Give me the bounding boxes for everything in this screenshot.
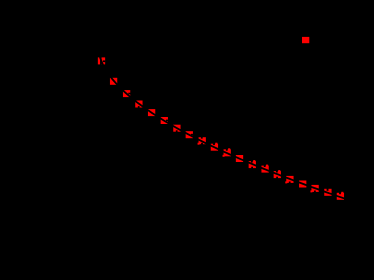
data marker 14 (red square with error-bar notches) (261, 165, 268, 173)
data marker 10 (red square with error-bar notches) (211, 143, 218, 151)
data marker 4 (red square with error-bar notches) (135, 101, 142, 108)
data marker 12 (red square with error-bar notches) (236, 155, 243, 162)
data marker 8 (red square with error-bar notches) (186, 131, 194, 138)
data marker 5 (red square with error-bar notches) (148, 109, 155, 116)
data marker 11 (red square with error-bar notches) (223, 148, 231, 157)
data marker 16 (red square with error-bar notches) (285, 176, 293, 184)
data marker 15 (red square with error-bar notches) (274, 170, 281, 178)
data marker 18 (red square with error-bar notches) (310, 185, 318, 193)
data marker 1 (red square with error-bar notches) (98, 56, 105, 65)
data marker 3 (red square with error-bar notches) (123, 90, 131, 97)
data marker 19 (red square with error-bar notches) (324, 189, 331, 196)
data marker 17 (red square with error-bar notches) (299, 181, 306, 188)
fit line (black power-law curve, drawn over markers) (99, 53, 353, 201)
data marker 7 (red square with error-bar notches) (173, 125, 180, 132)
data marker 2 (red square with error-bar notches) (110, 78, 117, 85)
data marker 6 (red square with error-bar notches) (161, 117, 169, 124)
data marker 13 (red square with error-bar notches) (249, 160, 256, 168)
data marker 9 (red square with error-bar notches) (198, 137, 206, 145)
legend marker (red square) (302, 37, 309, 43)
data marker 20 (red square with error-bar notches) (337, 192, 344, 200)
